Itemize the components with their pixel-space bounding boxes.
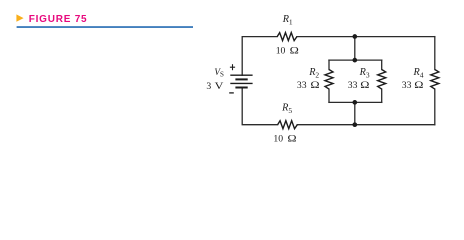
wire: R3 bottom lead — [381, 89, 383, 102]
svg-text:Ω: Ω — [310, 80, 319, 91]
junction dot on parallel top rail — [352, 58, 357, 63]
wire: stub from top node down to parallel top rail — [354, 37, 356, 61]
resistor R5 zigzag — [278, 121, 298, 129]
wire: bottom from bottom-right corner left to R5 — [297, 124, 435, 126]
wire: R3 top lead — [381, 60, 383, 69]
wire: parallel sub-loop bottom rail — [329, 101, 382, 103]
svg-text:33: 33 — [348, 80, 358, 91]
battery VS plates — [230, 75, 252, 87]
svg-text:R5: R5 — [281, 102, 292, 115]
wire: R1 right to top-right corner — [297, 36, 435, 38]
svg-text:10: 10 — [273, 134, 283, 145]
svg-text:VS: VS — [214, 67, 224, 79]
resistor R3 zigzag — [378, 70, 386, 90]
node junction dot on top wire — [352, 34, 357, 39]
wire: R2 bottom lead — [328, 89, 330, 102]
svg-text:33: 33 — [402, 80, 412, 91]
svg-text:R2: R2 — [308, 67, 319, 80]
resistor R4 zigzag — [431, 70, 439, 90]
figure pointer triangle — [16, 14, 23, 21]
wire: right branch bottom lead from R4 to bottom-right corner — [434, 89, 436, 125]
resistor R2 zigzag — [325, 70, 333, 90]
svg-text:R1: R1 — [282, 14, 293, 27]
svg-text:33: 33 — [297, 80, 307, 91]
battery minus sign — [229, 92, 234, 94]
resistor R1 zigzag — [277, 33, 297, 41]
wire: battery positive terminal up and right to R1 — [242, 37, 277, 76]
battery plus sign — [230, 64, 235, 70]
wire: right branch top lead down to R4 — [434, 37, 436, 70]
svg-text:R4: R4 — [413, 67, 424, 80]
wire: stub from parallel bottom rail down to bottom node — [354, 102, 356, 124]
svg-text:3: 3 — [206, 81, 211, 92]
node junction dot on bottom wire — [352, 122, 357, 127]
wire: parallel sub-loop top rail — [329, 59, 382, 61]
junction dot on parallel bottom rail — [352, 100, 357, 105]
svg-text:Ω: Ω — [290, 45, 299, 56]
svg-text:V: V — [215, 81, 224, 92]
wire: R5 left to bottom-left corner up to battery negative terminal — [242, 88, 277, 125]
wire: R2 top lead — [328, 60, 330, 69]
svg-text:Ω: Ω — [360, 80, 369, 91]
svg-text:10: 10 — [276, 45, 286, 56]
svg-text:FIGURE 75: FIGURE 75 — [29, 14, 88, 25]
svg-text:R3: R3 — [359, 67, 370, 80]
svg-text:Ω: Ω — [287, 134, 296, 145]
svg-text:Ω: Ω — [414, 80, 423, 91]
caption underline rule — [17, 26, 193, 28]
